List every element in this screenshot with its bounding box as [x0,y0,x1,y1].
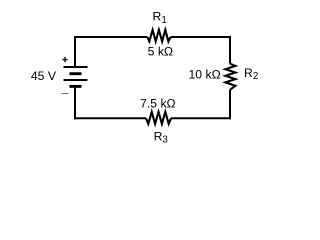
svg-text:45 V: 45 V [31,69,57,83]
battery long plate 1 [64,66,88,68]
svg-text:7.5 kΩ: 7.5 kΩ [140,96,176,110]
resistor R2 [225,64,235,90]
battery short plate 4 [70,85,82,88]
resistor R3 [146,112,171,124]
svg-text:R1: R1 [153,10,167,26]
wire bottom-right segment [171,117,231,119]
battery B1 plates [64,67,88,86]
wire left vertical top (to battery) [74,36,76,67]
wire bottom-left segment [74,117,146,119]
svg-text:10 kΩ: 10 kΩ [189,68,221,82]
wire left vertical bottom [74,86,76,119]
wire right vertical top [229,36,231,64]
svg-text:R3: R3 [154,129,169,145]
wire top-right segment [171,36,231,38]
svg-text:R2: R2 [244,66,258,82]
battery plus sign [62,57,67,62]
wire right vertical bottom [229,90,231,120]
wire top-left segment [75,36,147,38]
svg-text:5 kΩ: 5 kΩ [148,45,173,59]
battery short plate 2 [70,72,82,75]
resistor R1 [147,30,170,42]
battery long plate 3 [64,79,88,81]
battery minus sign [61,93,68,95]
